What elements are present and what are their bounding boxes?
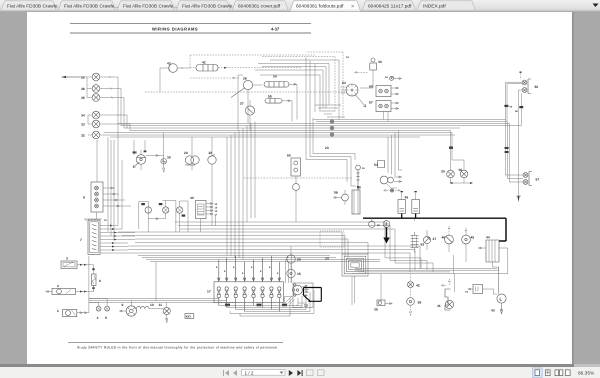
wire vertical bundle from lamps bbox=[118, 77, 124, 128]
starter motor 43 bbox=[491, 267, 506, 314]
switch 22b (starter switch contacts) bbox=[374, 161, 402, 189]
svg-text:55: 55 bbox=[268, 95, 272, 99]
lamp 30R (right tail lamp) bbox=[459, 168, 468, 178]
wire left vertical bundle lamps-to-bus2 bbox=[108, 124, 122, 241]
lamp 35 bbox=[81, 89, 100, 102]
fuse 6 (inline fuse) bbox=[92, 268, 101, 291]
connector 8 (dash harness connector) bbox=[83, 140, 103, 212]
horn 20 bbox=[184, 137, 199, 170]
wire lamp32 to bus bbox=[100, 134, 455, 136]
wire nested loop harness top-centre bbox=[255, 52, 349, 120]
ground tail lamps bbox=[451, 178, 471, 183]
svg-text:8: 8 bbox=[233, 266, 235, 269]
wire centre vertical bundle bbox=[227, 122, 255, 260]
svg-text:86.35%: 86.35% bbox=[578, 370, 595, 376]
svg-text:43: 43 bbox=[491, 309, 495, 313]
lamp 22 (front lamp) bbox=[61, 73, 100, 81]
fuse F3 bbox=[234, 256, 237, 310]
wire bus2 line f bbox=[128, 250, 415, 271]
lamp 36 bbox=[81, 77, 100, 92]
button 4 (horn button) bbox=[89, 302, 101, 320]
sensor 39 (pressure switch) bbox=[146, 133, 171, 173]
wire bus2 line b bbox=[122, 236, 345, 257]
wire bus2 line d bbox=[135, 243, 368, 255]
wire lamp36 to bundle bbox=[100, 88, 121, 90]
connector 50 (rear harness plug) bbox=[520, 72, 539, 94]
wire bus2 line c bbox=[135, 239, 348, 258]
fuse F6 bbox=[261, 258, 264, 308]
svg-text:42: 42 bbox=[416, 284, 420, 288]
svg-text:KEY: KEY bbox=[186, 316, 192, 319]
svg-text:42: 42 bbox=[202, 61, 206, 65]
wire bus1 drop to tail lamps bbox=[451, 131, 465, 171]
gauge 28b (fuel gauge feed) bbox=[287, 246, 301, 269]
wire solenoid feeds bbox=[455, 248, 508, 292]
lamp 35b (field winding box) bbox=[374, 274, 392, 312]
wire connector8 pin fanout bbox=[103, 187, 131, 207]
regulator 41 bbox=[437, 255, 454, 310]
svg-text:60406381 foldouts.pdf: 60406381 foldouts.pdf bbox=[296, 4, 344, 10]
glow plug resistor 63 bbox=[411, 219, 425, 254]
wire connector7 pin fanout to bus2 bbox=[100, 225, 135, 252]
svg-text:56: 56 bbox=[334, 191, 338, 195]
svg-text:54: 54 bbox=[510, 106, 513, 109]
resistor 55 (stabilizer) bbox=[265, 95, 292, 122]
gauge 26 (oil pressure gauge) bbox=[231, 77, 262, 98]
relay 29 (hatched housing by switch) bbox=[285, 297, 295, 305]
page footer rule and safety note bbox=[68, 343, 283, 350]
wire bus1 line h (y137) bbox=[110, 136, 420, 138]
wire fuse jumper loops below box bbox=[219, 290, 314, 316]
wire bus1 to plug 57 bbox=[506, 120, 524, 183]
wire dashed accessory line (y178) bbox=[244, 177, 352, 179]
wire bus1 line f (y130.5) bbox=[130, 130, 451, 132]
motor 56 (wiper motor) bbox=[333, 190, 348, 205]
svg-text:60406381 cover.pdf: 60406381 cover.pdf bbox=[238, 4, 281, 10]
svg-text:30: 30 bbox=[167, 156, 171, 160]
svg-text:45: 45 bbox=[471, 236, 475, 240]
fuse F8 bbox=[278, 262, 281, 312]
wire ignition drop bundle bbox=[388, 131, 402, 177]
wire plug50 upper to vertical run bbox=[506, 82, 523, 121]
wire bus1 line a (y119.5) bbox=[313, 119, 506, 121]
wire bus1 line d (y125.5) bbox=[121, 125, 521, 127]
connector 7 (main harness connector) bbox=[80, 220, 100, 255]
svg-text:18: 18 bbox=[346, 56, 349, 59]
svg-text:8: 8 bbox=[216, 266, 218, 269]
button 5 (dimmer switch) bbox=[89, 299, 110, 321]
svg-text:Fiat Allis FD30B Crawle...: Fiat Allis FD30B Crawle... bbox=[182, 4, 236, 10]
wire bus1 line e (y128) bbox=[124, 127, 460, 129]
wire bus lower band to starter area bbox=[352, 267, 508, 274]
svg-text:60: 60 bbox=[287, 154, 291, 158]
svg-text:57: 57 bbox=[536, 178, 540, 182]
svg-text:44: 44 bbox=[486, 236, 490, 240]
svg-text:A2: A2 bbox=[465, 291, 469, 294]
svg-text:27: 27 bbox=[240, 102, 244, 106]
svg-text:48: 48 bbox=[357, 186, 361, 190]
svg-text:47: 47 bbox=[433, 237, 437, 241]
wire bus1 line c (y123.5) bbox=[118, 123, 510, 125]
wire instrument return lines bbox=[306, 118, 356, 186]
svg-text:38: 38 bbox=[418, 301, 422, 305]
meter 47 (glow indicator coil) bbox=[423, 230, 436, 250]
svg-text:15: 15 bbox=[104, 219, 107, 222]
svg-text:11: 11 bbox=[159, 303, 163, 307]
wire bus1 line g (y132.5) bbox=[104, 132, 452, 134]
wire dashed lamp link (y78) bbox=[190, 77, 240, 79]
svg-text:3: 3 bbox=[66, 257, 68, 261]
instrument 64 (hourmeter dial) bbox=[341, 81, 366, 107]
sensor 16 (temperature sender) bbox=[356, 165, 366, 190]
svg-text:9: 9 bbox=[122, 303, 124, 307]
svg-text:30: 30 bbox=[378, 60, 382, 64]
ground chassis right bbox=[517, 196, 520, 202]
switch 28 (stop light switch) bbox=[208, 137, 216, 226]
wire dashed sender common (y92) bbox=[145, 91, 345, 93]
svg-text:15: 15 bbox=[297, 272, 301, 276]
svg-text:Fiat Allis FD30B Crawle...: Fiat Allis FD30B Crawle... bbox=[64, 4, 118, 10]
svg-text:64: 64 bbox=[342, 81, 346, 85]
svg-text:35: 35 bbox=[81, 96, 85, 100]
svg-text:17: 17 bbox=[215, 214, 218, 217]
wire lamp33 to bus bbox=[100, 124, 130, 131]
relay 45 (cutout relay) bbox=[462, 228, 475, 262]
fuse F4 bbox=[243, 262, 246, 312]
ground battery (heavy arrow) bbox=[383, 221, 390, 244]
node junction 56 bbox=[515, 106, 523, 113]
relay 9a (wiper relay) bbox=[287, 154, 301, 223]
wire heavy feed loop at switch bbox=[304, 288, 322, 302]
relay 57a (wiper control) bbox=[369, 101, 399, 122]
svg-text:×: × bbox=[351, 4, 354, 10]
wire lamp34 to bus bbox=[100, 115, 127, 128]
svg-text:6: 6 bbox=[99, 279, 101, 283]
node fuse terminal labels bbox=[225, 304, 287, 307]
svg-text:1 / 2: 1 / 2 bbox=[245, 370, 254, 375]
svg-text:35: 35 bbox=[374, 308, 378, 312]
wire dashed gauge link (y67.5) bbox=[226, 67, 302, 69]
fuse F1 bbox=[217, 260, 220, 306]
connector 57 (rear plug lower) bbox=[523, 172, 539, 186]
node junction arrows near battery bbox=[383, 189, 400, 192]
svg-text:4-37: 4-37 bbox=[271, 27, 280, 32]
svg-text:8: 8 bbox=[83, 196, 85, 200]
node terminal strip above connector 7 bbox=[84, 212, 107, 222]
svg-text:8: 8 bbox=[251, 266, 253, 269]
node fuse rating labels bbox=[216, 266, 279, 275]
svg-text:33: 33 bbox=[81, 122, 85, 126]
sender 2 (fuel tank unit) bbox=[46, 284, 94, 295]
wire fuse feed bus bbox=[138, 256, 380, 262]
svg-text:8: 8 bbox=[260, 270, 262, 273]
svg-text:13: 13 bbox=[304, 304, 308, 308]
generator 38b (dynamo) bbox=[407, 274, 422, 316]
svg-text:22: 22 bbox=[81, 75, 85, 79]
gauge 27 (ammeter) bbox=[240, 100, 255, 131]
svg-text:WIRING DIAGRAMS: WIRING DIAGRAMS bbox=[152, 27, 198, 32]
svg-text:7: 7 bbox=[80, 238, 82, 242]
switch A2 (starter button) bbox=[465, 285, 497, 295]
relay 60 (flasher unit) bbox=[369, 85, 399, 97]
svg-text:60406425 11x17.pdf: 60406425 11x17.pdf bbox=[368, 4, 412, 10]
svg-text:57: 57 bbox=[369, 101, 373, 105]
wire switch jumpers below bbox=[296, 303, 306, 306]
node connector splices on bus1 bbox=[330, 120, 333, 136]
fuse F5 bbox=[252, 260, 255, 306]
svg-text:20: 20 bbox=[184, 151, 188, 155]
node tick 38 bbox=[449, 147, 453, 149]
svg-text:Study SAFETY RULES in the fron: Study SAFETY RULES in the front of this … bbox=[77, 345, 279, 349]
svg-text:8: 8 bbox=[277, 272, 279, 275]
node junction 54 bbox=[504, 105, 512, 109]
wire bus2 line e bbox=[128, 246, 420, 269]
svg-text:16: 16 bbox=[362, 167, 365, 170]
svg-text:34: 34 bbox=[81, 113, 85, 117]
svg-text:20: 20 bbox=[297, 258, 301, 262]
svg-text:17: 17 bbox=[207, 290, 211, 294]
svg-text:60: 60 bbox=[369, 85, 373, 89]
svg-text:36: 36 bbox=[81, 87, 85, 91]
svg-text:26: 26 bbox=[243, 77, 247, 81]
svg-text:18: 18 bbox=[385, 76, 388, 79]
wire bus2 staircase upper bbox=[175, 222, 433, 272]
status bar bbox=[0, 367, 600, 378]
svg-text:23: 23 bbox=[325, 146, 329, 150]
svg-text:49: 49 bbox=[405, 196, 409, 200]
svg-text:8: 8 bbox=[242, 272, 244, 275]
gauge loop 46b (sender loop 3) bbox=[177, 201, 189, 232]
svg-text:5: 5 bbox=[105, 316, 107, 320]
wire gauge 26 drop bbox=[238, 75, 248, 131]
svg-text:Fiat Allis FD30B Crawle...: Fiat Allis FD30B Crawle... bbox=[7, 4, 61, 10]
svg-text:8: 8 bbox=[224, 270, 226, 273]
wire main lower-left vertical bbox=[88, 256, 90, 313]
switch 40 (light switch multi-contact) bbox=[190, 196, 218, 232]
wire spiral drop bbox=[352, 276, 355, 305]
gauge loop 44b (sender loop 1) bbox=[139, 202, 166, 233]
svg-text:63: 63 bbox=[421, 243, 425, 247]
wire lamp22 to bundle bbox=[100, 76, 118, 78]
svg-text:Fiat Allis FD30B Crawle...: Fiat Allis FD30B Crawle... bbox=[123, 4, 177, 10]
svg-text:8: 8 bbox=[269, 266, 271, 269]
svg-text:56: 56 bbox=[515, 110, 518, 113]
svg-text:2: 2 bbox=[57, 284, 59, 288]
svg-text:40: 40 bbox=[190, 196, 194, 200]
sender 42 (fuel level sender) bbox=[190, 61, 227, 72]
gauge 15 (hour meter feed) bbox=[287, 269, 301, 283]
svg-text:30: 30 bbox=[441, 170, 445, 174]
svg-text:14: 14 bbox=[325, 257, 329, 261]
gauge 43 (temperature gauge) bbox=[160, 62, 190, 93]
lamp 32 bbox=[81, 131, 100, 139]
battery 49 (two 12V batteries) bbox=[398, 191, 420, 214]
wire plug50 lower to vertical run bbox=[519, 90, 523, 196]
svg-text:INDEX.pdf: INDEX.pdf bbox=[423, 4, 446, 10]
svg-text:50: 50 bbox=[535, 85, 539, 89]
lamp 30L (left tail lamp) bbox=[441, 170, 454, 178]
wire heavy battery cable bbox=[363, 218, 506, 241]
node battery junction 59 bbox=[369, 218, 381, 228]
fuse F7 bbox=[270, 256, 273, 310]
sender 1 (oil pressure sender) bbox=[57, 309, 89, 317]
tab bar of PDF viewer bbox=[0, 0, 600, 12]
motor 9 (blower motor) bbox=[119, 301, 136, 317]
gauge loop 45b (sender loop 2) bbox=[159, 201, 176, 233]
wire dashed instrument feed (y55) bbox=[190, 55, 316, 68]
page header rule top bbox=[70, 23, 311, 33]
wire relay38 loop bbox=[133, 140, 147, 168]
switch 30 (panel light switch, key symbol) bbox=[354, 58, 401, 88]
lamp 34 bbox=[81, 111, 100, 119]
svg-text:1: 1 bbox=[57, 309, 59, 313]
svg-text:L: L bbox=[500, 297, 503, 302]
wire lamp35 to bundle bbox=[100, 97, 124, 99]
svg-text:41: 41 bbox=[437, 304, 441, 308]
wire bus2 line a bbox=[118, 232, 342, 254]
node KEY legend box bbox=[185, 314, 194, 319]
resistor 24 (heater resistance) bbox=[264, 75, 297, 120]
svg-text:32: 32 bbox=[81, 133, 85, 137]
fuse link 48 bbox=[352, 186, 361, 215]
solenoid 44 (starter solenoid) bbox=[478, 236, 499, 268]
lamp 11 (indicator lamp) bbox=[159, 303, 171, 324]
lamp 33 bbox=[81, 115, 100, 128]
svg-text:10: 10 bbox=[150, 303, 154, 307]
relay 38 (horn relay) bbox=[133, 150, 146, 170]
node junction 41/39 ticks bbox=[505, 147, 509, 153]
fuse box 17 (outline) bbox=[207, 282, 284, 303]
wire harness spiral loop (nested) bbox=[342, 254, 368, 276]
wire lower-left horizontal runs bbox=[89, 262, 236, 303]
resistor 3 (series resistor) bbox=[61, 257, 94, 275]
wire bus1 line b (y121.5) bbox=[316, 121, 508, 123]
switch 13 (ignition starter switch) bbox=[292, 283, 313, 308]
svg-text:4: 4 bbox=[97, 316, 99, 320]
wire bus2 line g bbox=[100, 253, 410, 272]
node harness junction 14 (dashed box) bbox=[320, 231, 344, 261]
wire fuse drops right bundle bbox=[286, 255, 292, 283]
coil 10 (resistor coil) bbox=[137, 303, 164, 309]
relay 46 (safety start relay) bbox=[442, 226, 454, 252]
fuse F2 bbox=[225, 258, 228, 308]
